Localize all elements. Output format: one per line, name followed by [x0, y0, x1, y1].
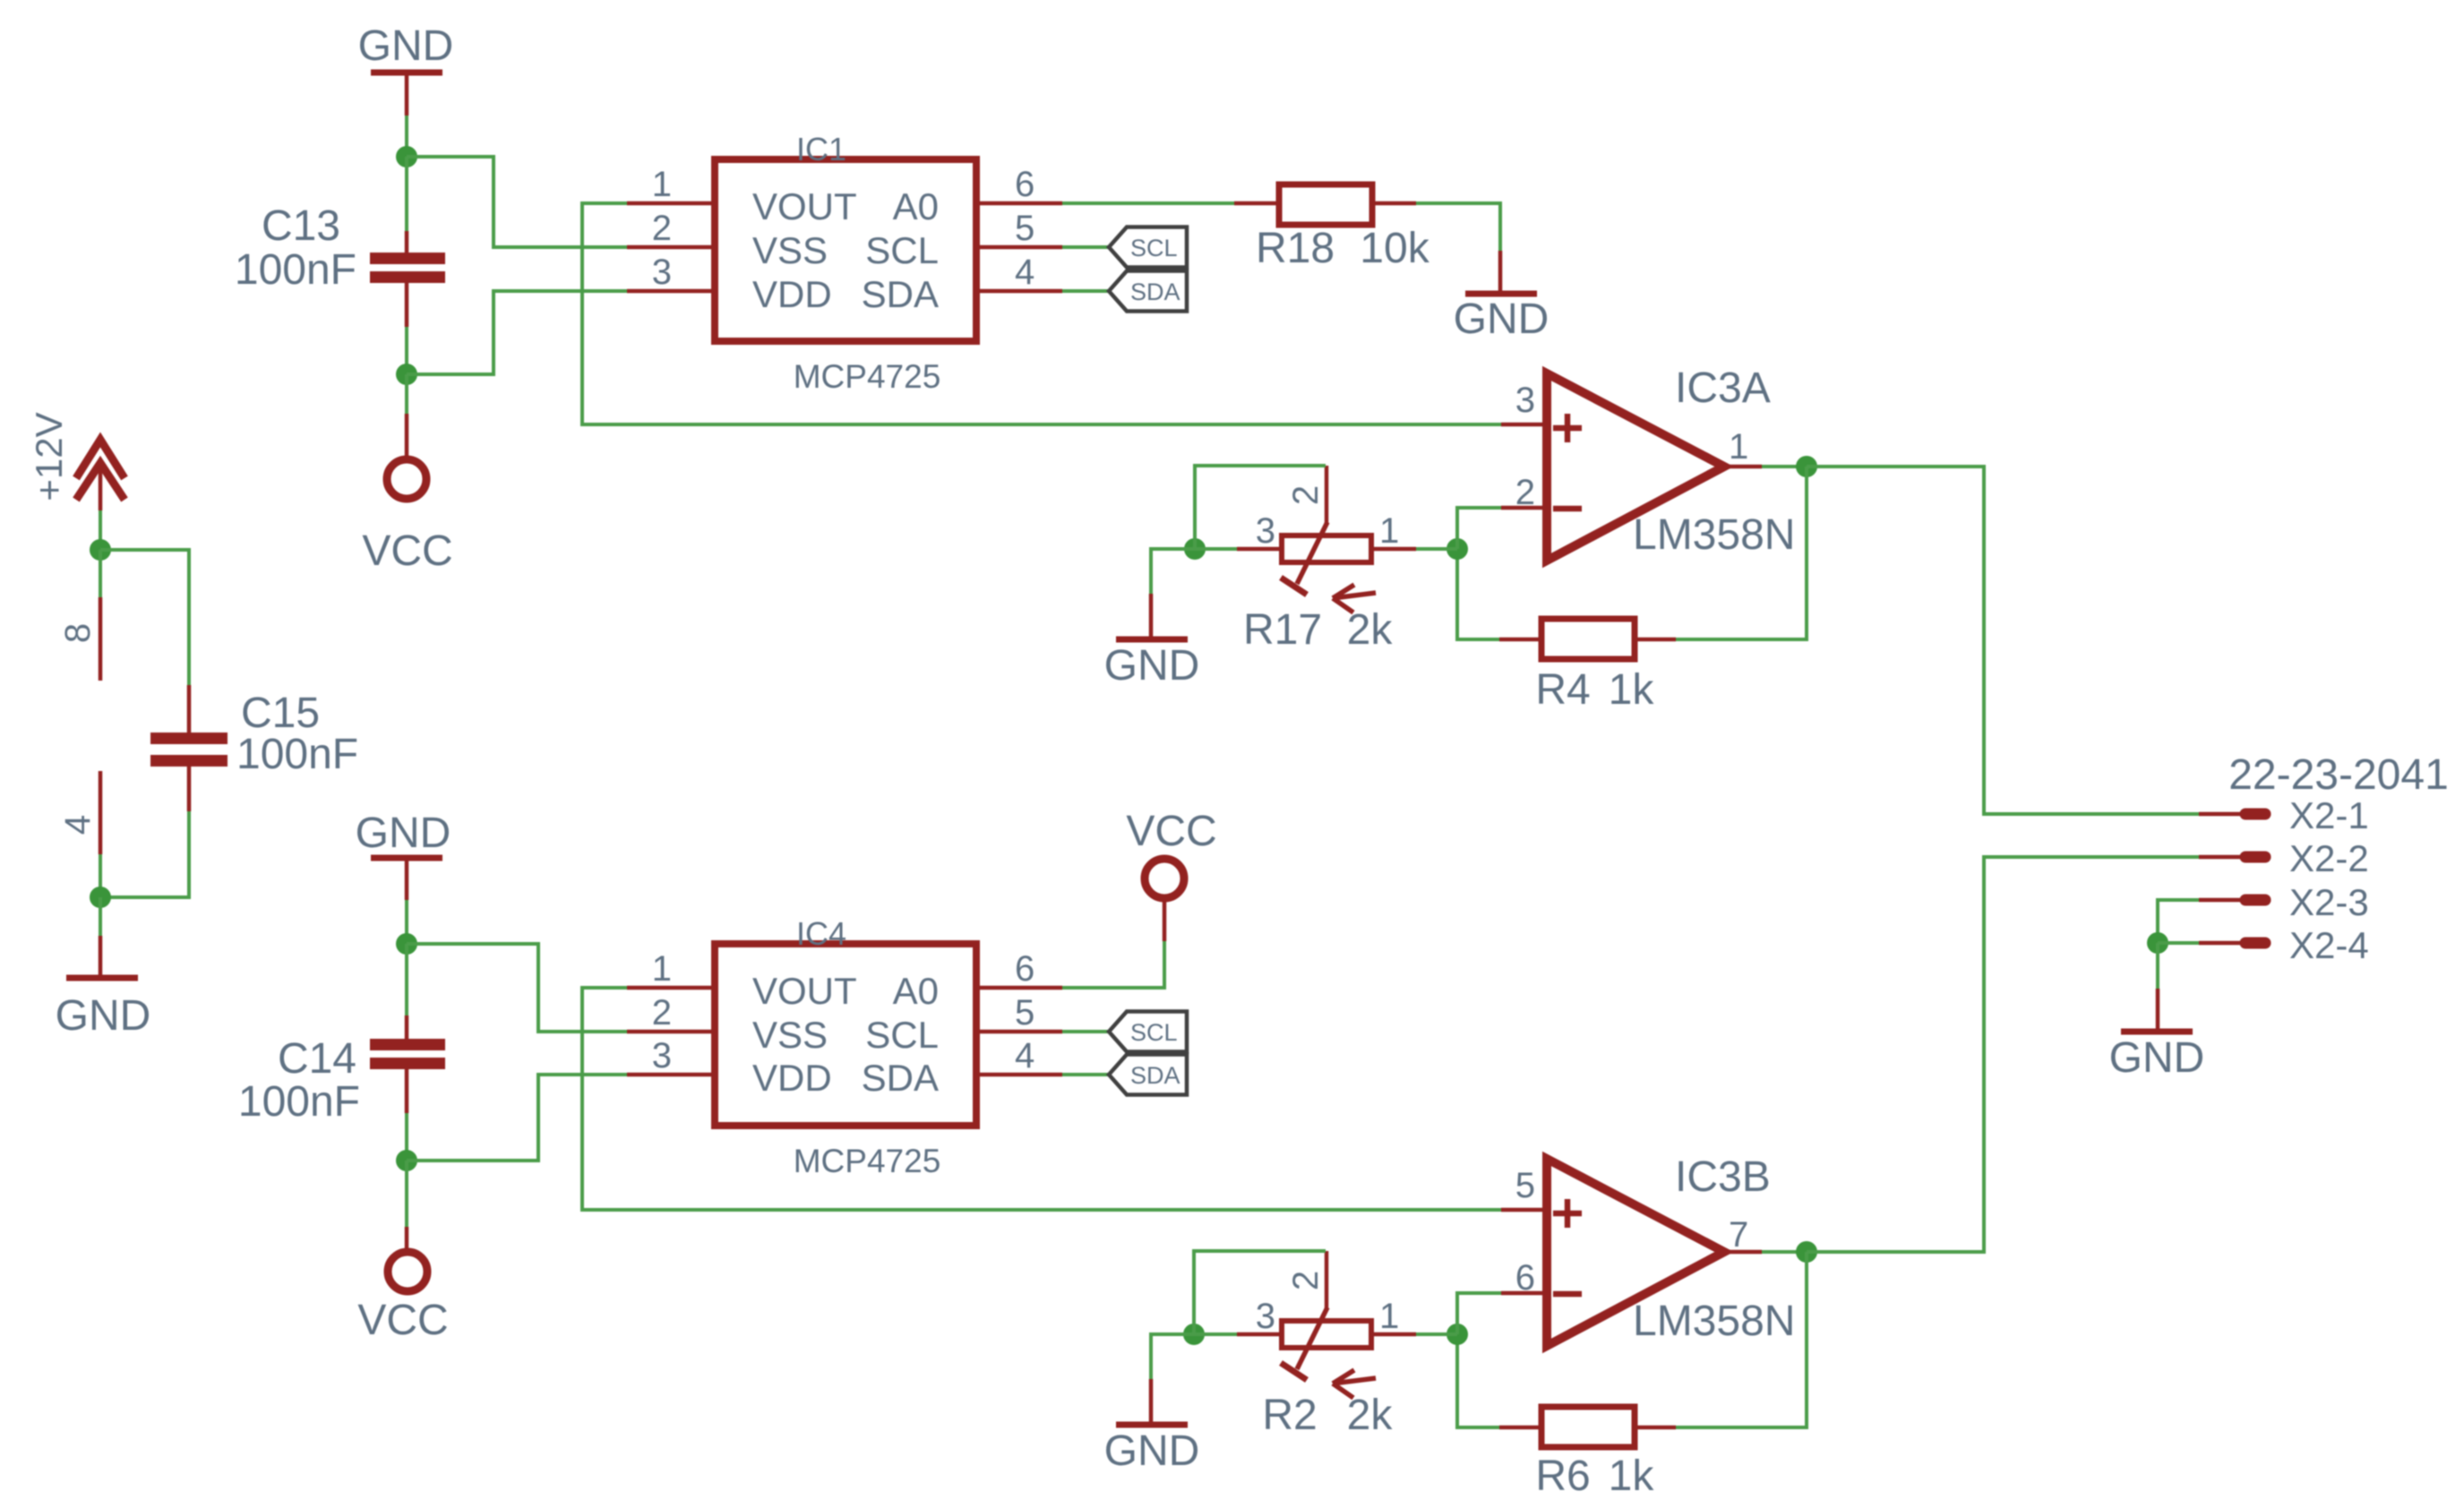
- wire loop junction to R2 pin2: [1194, 1251, 1326, 1334]
- svg-text:5: 5: [1015, 209, 1035, 248]
- svg-text:100nF: 100nF: [238, 1078, 360, 1126]
- svg-text:VOUT: VOUT: [752, 970, 857, 1012]
- svg-text:100nF: 100nF: [236, 731, 358, 778]
- pin 2 of IC4 (VSS): [627, 993, 715, 1032]
- resistor R18 10k: [1256, 184, 1430, 272]
- pin X2-2: [2199, 837, 2369, 879]
- svg-text:GND: GND: [1104, 642, 1200, 690]
- svg-text:LM358N: LM358N: [1633, 511, 1795, 559]
- wire X2-3 to node N7: [2158, 900, 2199, 943]
- wire junction to GND6: [1151, 1334, 1194, 1379]
- wire R4 left to node INV1: [1457, 549, 1499, 639]
- wire +12V to node N3: [99, 465, 103, 510]
- svg-text:IC4: IC4: [796, 915, 846, 952]
- label C14 value: [238, 1035, 360, 1126]
- wire node N1 to IC1 pin 2 (VSS): [407, 157, 627, 247]
- svg-text:1: 1: [1729, 427, 1748, 467]
- svg-text:X2-2: X2-2: [2289, 837, 2369, 879]
- label C13 value: [235, 202, 356, 294]
- bus tag SDA (top): [1109, 271, 1187, 312]
- pin 4 of IC4 (SDA): [976, 1036, 1062, 1075]
- wire X2-4 to node N7: [2158, 941, 2199, 945]
- wire IC3A out to node OUT1: [1762, 465, 1807, 468]
- svg-text:3: 3: [652, 253, 672, 292]
- pin 3 of IC3A (+in): [1501, 381, 1547, 424]
- supply +12V: [28, 412, 124, 501]
- pin 5 of IC1 (SCL): [976, 209, 1062, 248]
- ground GND7 (below X2): [2109, 1032, 2205, 1082]
- svg-text:GND: GND: [1104, 1427, 1200, 1475]
- wire IC1 pin 1 to node A (long wire to IC3A +input): [582, 203, 1501, 424]
- svg-text:3: 3: [1515, 381, 1535, 420]
- wire IC4 pin 5 to SCL tag: [1062, 1030, 1109, 1033]
- svg-text:R6: R6: [1535, 1452, 1590, 1500]
- svg-text:1: 1: [1379, 511, 1399, 551]
- pin 7 of IC3B (out): [1724, 1215, 1762, 1255]
- svg-text:6: 6: [1015, 949, 1035, 989]
- svg-text:VCC: VCC: [357, 1297, 448, 1344]
- svg-text:1k: 1k: [1609, 1452, 1655, 1500]
- svg-text:1: 1: [652, 949, 672, 989]
- wire loop junction to R17 pin2: [1195, 466, 1326, 549]
- pin 3 of IC4 (VDD): [627, 1036, 715, 1075]
- wiper arrow of R17: [1333, 585, 1376, 613]
- pin 2 of IC3A (-in): [1501, 473, 1547, 512]
- wire node N1 down to C13 top: [405, 157, 408, 231]
- wire IC4 pin 1 to node B (long wire to IC3B +input): [582, 988, 1501, 1210]
- supply VCC (below C14): [357, 1252, 448, 1344]
- wire R6 left to node INV2: [1457, 1334, 1499, 1427]
- pin 4 stub (IC3 power): [58, 771, 100, 897]
- resistor R6 1k: [1499, 1407, 1676, 1500]
- pin 6 of IC4 (A0): [976, 949, 1062, 989]
- svg-text:GND: GND: [1454, 296, 1550, 343]
- svg-text:R2: R2: [1262, 1392, 1317, 1439]
- node N7 junction: [2147, 932, 2168, 954]
- wire IC1 pin 4 to SDA tag: [1062, 289, 1109, 293]
- ground GND4 (bottom of +12V column): [56, 978, 151, 1040]
- wire junction to GND3: [1151, 549, 1195, 594]
- wire node N6 to IC4 pin 3 (VDD): [407, 1075, 627, 1161]
- svg-text:7: 7: [1729, 1215, 1748, 1255]
- wire IC3B out to node OUT2: [1762, 1250, 1807, 1254]
- op-amp IC1 MCP4725 DAC box: [715, 131, 976, 395]
- ground GND6 (below R2): [1104, 1425, 1200, 1475]
- wire node OUT1 to X2-1: [1807, 467, 2199, 814]
- svg-text:C14: C14: [278, 1035, 356, 1083]
- wire node N4 to GND4: [99, 897, 102, 936]
- svg-text:X2-4: X2-4: [2289, 924, 2369, 966]
- capacitor C13: [370, 253, 445, 283]
- bus tag SCL (top): [1109, 227, 1187, 268]
- svg-text:SDA: SDA: [862, 273, 939, 315]
- svg-text:X2-1: X2-1: [2289, 794, 2369, 836]
- svg-text:MCP4725: MCP4725: [794, 358, 941, 395]
- wire feedback node OUT1 down to R4: [1676, 467, 1807, 639]
- svg-text:R18: R18: [1256, 225, 1335, 272]
- svg-text:2: 2: [652, 209, 672, 248]
- svg-text:VCC: VCC: [362, 527, 452, 575]
- svg-text:SCL: SCL: [1130, 1019, 1178, 1046]
- svg-text:VDD: VDD: [752, 273, 832, 315]
- wire GND1 to node N1: [405, 116, 408, 157]
- supply VCC (above IC4 pin 6): [1126, 808, 1216, 898]
- pin X2-4: [2199, 924, 2369, 966]
- op-amp IC4 MCP4725 DAC box: [715, 915, 976, 1179]
- svg-text:MCP4725: MCP4725: [794, 1143, 941, 1179]
- node N4 junction: [90, 887, 111, 908]
- wire node N3 to C15 top: [100, 550, 189, 685]
- bus tag SCL (bottom): [1109, 1012, 1187, 1052]
- svg-text:GND: GND: [56, 992, 151, 1040]
- svg-text:C13: C13: [262, 202, 340, 250]
- node N2 junction: [396, 364, 417, 385]
- node N1 junction: [396, 146, 417, 167]
- svg-text:6: 6: [1515, 1258, 1535, 1298]
- trimmer R17 2k: [1237, 466, 1416, 654]
- svg-text:3: 3: [1256, 511, 1275, 551]
- wire R17 pin1 to node INV1: [1416, 547, 1457, 551]
- svg-text:LM358N: LM358N: [1633, 1298, 1795, 1345]
- pin 8 stub (IC3 power): [58, 550, 100, 681]
- svg-text:R17: R17: [1243, 606, 1322, 654]
- wire node OUT2 to X2-2: [1807, 857, 2199, 1252]
- svg-text:6: 6: [1015, 165, 1035, 204]
- svg-text:3: 3: [1256, 1297, 1275, 1336]
- ground GND1 (top left, above C13): [358, 22, 454, 116]
- svg-text:100nF: 100nF: [235, 246, 356, 294]
- ground GND5 (above C14): [356, 810, 451, 900]
- svg-text:1: 1: [1379, 1297, 1399, 1336]
- svg-text:2k: 2k: [1347, 606, 1394, 654]
- wire R2 pin3 to junction: [1194, 1332, 1237, 1336]
- pin 1 of IC1 (VOUT): [627, 165, 715, 204]
- wire IC1 pin 6 to R18: [1062, 201, 1234, 205]
- svg-text:SCL: SCL: [865, 229, 939, 271]
- svg-text:A0: A0: [893, 970, 939, 1012]
- svg-text:SDA: SDA: [1130, 278, 1180, 305]
- op-amp IC3B LM358N: [1547, 1153, 1795, 1346]
- svg-text:VDD: VDD: [752, 1057, 832, 1099]
- svg-text:2: 2: [652, 993, 672, 1032]
- capacitor C15: [150, 733, 228, 767]
- resistor R4 1k: [1499, 619, 1676, 714]
- svg-text:8: 8: [58, 623, 98, 643]
- svg-text:4: 4: [1015, 253, 1035, 292]
- svg-text:SDA: SDA: [1130, 1062, 1180, 1089]
- node OUT2 junction: [1796, 1241, 1817, 1263]
- svg-text:VOUT: VOUT: [752, 185, 857, 227]
- wire node INV2 up to IC3B pin 6: [1457, 1293, 1501, 1334]
- svg-text:VSS: VSS: [752, 1014, 828, 1056]
- svg-text:SDA: SDA: [862, 1057, 939, 1099]
- pin 6 of IC3B (-in): [1501, 1258, 1547, 1298]
- wire IC4 pin 6 to VCC supply: [1062, 941, 1164, 988]
- svg-text:R4: R4: [1535, 666, 1590, 714]
- wire C13 bottom to node N2: [405, 283, 409, 327]
- wire C14 bottom to node N6: [405, 1069, 409, 1113]
- wire IC4 pin 4 to SDA tag: [1062, 1073, 1109, 1076]
- ground GND2 (below R18): [1454, 294, 1550, 343]
- svg-text:SCL: SCL: [865, 1014, 939, 1056]
- pin X2-3: [2199, 881, 2369, 923]
- wire node N2 to IC1 pin 3 (VDD): [407, 291, 627, 374]
- svg-text:A0: A0: [893, 185, 939, 227]
- wire feedback node OUT2 down to R6: [1676, 1252, 1807, 1427]
- wire node N7 to GND7: [2156, 943, 2159, 989]
- pin 4 of IC1 (SDA): [976, 253, 1062, 292]
- svg-text:10k: 10k: [1360, 225, 1429, 272]
- wire node INV1 up to IC3A pin 2: [1457, 508, 1501, 549]
- label C15 value: [236, 690, 358, 778]
- capacitor C14: [370, 1039, 445, 1069]
- pin 1 of IC3A (out): [1724, 427, 1762, 467]
- svg-text:IC1: IC1: [796, 131, 846, 167]
- op-amp IC3A LM358N: [1547, 364, 1795, 561]
- wire node N5 down to C14 top: [405, 944, 408, 1015]
- svg-text:VSS: VSS: [752, 229, 828, 271]
- wire node N6 to VCC supply: [405, 1161, 408, 1227]
- node N3 junction: [90, 539, 111, 561]
- pin 6 of IC1 (A0): [976, 165, 1062, 204]
- node N6 junction: [396, 1150, 417, 1171]
- svg-text:22-23-2041: 22-23-2041: [2228, 751, 2449, 799]
- wire node N5 to IC4 pin 2 (VSS): [407, 944, 627, 1032]
- svg-text:GND: GND: [2109, 1034, 2205, 1082]
- wire R2 pin1 to node INV2: [1416, 1332, 1457, 1336]
- svg-text:VCC: VCC: [1126, 808, 1216, 855]
- svg-text:3: 3: [652, 1036, 672, 1075]
- svg-text:GND: GND: [358, 22, 454, 70]
- wire R17 pin3 to junction: [1195, 547, 1237, 551]
- svg-text:SCL: SCL: [1130, 235, 1178, 261]
- svg-text:IC3B: IC3B: [1675, 1153, 1771, 1201]
- pin 2 of IC1 (VSS): [627, 209, 715, 248]
- bus tag SDA (bottom): [1109, 1055, 1187, 1095]
- svg-text:5: 5: [1515, 1166, 1535, 1205]
- wire IC1 pin 5 to SCL tag: [1062, 245, 1109, 249]
- wire C15 bottom to node N4: [187, 767, 192, 811]
- svg-text:2k: 2k: [1347, 1392, 1394, 1439]
- supply VCC (below C13): [362, 459, 452, 575]
- svg-text:1k: 1k: [1609, 666, 1655, 714]
- svg-text:4: 4: [1015, 1036, 1035, 1075]
- trimmer R2 2k: [1237, 1251, 1416, 1439]
- node INV2 junction: [1447, 1324, 1468, 1345]
- pin X2-1: [2199, 794, 2369, 836]
- svg-text:5: 5: [1015, 993, 1035, 1032]
- svg-text:2: 2: [1286, 1271, 1326, 1290]
- wire R18 right to ground: [1372, 201, 1416, 206]
- svg-text:GND: GND: [356, 810, 451, 857]
- svg-text:1: 1: [652, 165, 672, 204]
- node R17-left junction: [1184, 538, 1206, 560]
- svg-text:2: 2: [1286, 485, 1326, 505]
- pin 5 of IC4 (SCL): [976, 993, 1062, 1032]
- svg-text:IC3A: IC3A: [1675, 364, 1771, 412]
- ground GND3 (below R17): [1104, 639, 1200, 690]
- wire GND5 to node N5: [405, 900, 408, 944]
- svg-text:2: 2: [1515, 473, 1535, 512]
- pin 3 of IC1 (VDD): [627, 253, 715, 292]
- node OUT1 junction: [1796, 456, 1817, 477]
- wiper arrow of R2: [1333, 1370, 1376, 1398]
- wire node N2 to VCC supply: [405, 374, 408, 414]
- node INV1 junction: [1447, 538, 1468, 560]
- svg-text:4: 4: [58, 815, 98, 835]
- pin 1 of IC4 (VOUT): [627, 949, 715, 989]
- svg-text:+12V: +12V: [28, 412, 70, 501]
- pin 5 of IC3B (+in): [1501, 1166, 1547, 1210]
- svg-text:X2-3: X2-3: [2289, 881, 2369, 923]
- node R2-left junction: [1183, 1324, 1205, 1345]
- node N5 junction: [396, 933, 417, 955]
